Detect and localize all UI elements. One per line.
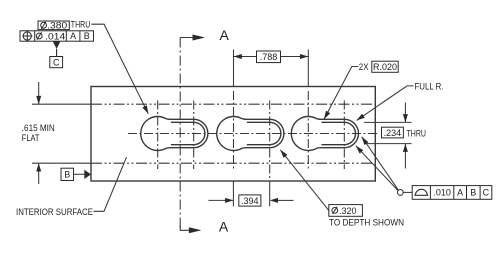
- svg-text:C: C: [483, 188, 490, 198]
- svg-text:A: A: [457, 188, 463, 198]
- svg-text:TO DEPTH SHOWN: TO DEPTH SHOWN: [329, 217, 404, 227]
- svg-text:.788: .788: [260, 52, 278, 62]
- svg-text:2X: 2X: [359, 62, 369, 72]
- svg-text:B: B: [470, 188, 476, 198]
- svg-text:FLAT: FLAT: [22, 133, 40, 143]
- svg-text:.615 MIN: .615 MIN: [22, 123, 55, 133]
- svg-text:THRU: THRU: [407, 128, 427, 138]
- svg-text:INTERIOR SURFACE: INTERIOR SURFACE: [16, 207, 93, 217]
- svg-text:FULL R.: FULL R.: [415, 81, 444, 91]
- svg-text:.394: .394: [241, 196, 259, 206]
- svg-text:.010: .010: [433, 188, 451, 198]
- svg-text:A: A: [220, 27, 230, 43]
- svg-text:A: A: [70, 31, 76, 41]
- svg-text:R.020: R.020: [373, 62, 397, 72]
- svg-text:.234: .234: [384, 128, 402, 138]
- svg-text:.014: .014: [45, 31, 65, 41]
- svg-text:B: B: [84, 31, 90, 41]
- svg-text:.320: .320: [339, 206, 357, 216]
- svg-text:THRU: THRU: [71, 20, 91, 30]
- svg-text:C: C: [53, 58, 60, 68]
- svg-text:A: A: [219, 219, 229, 235]
- svg-text:B: B: [64, 170, 70, 180]
- svg-text:.380: .380: [47, 20, 67, 30]
